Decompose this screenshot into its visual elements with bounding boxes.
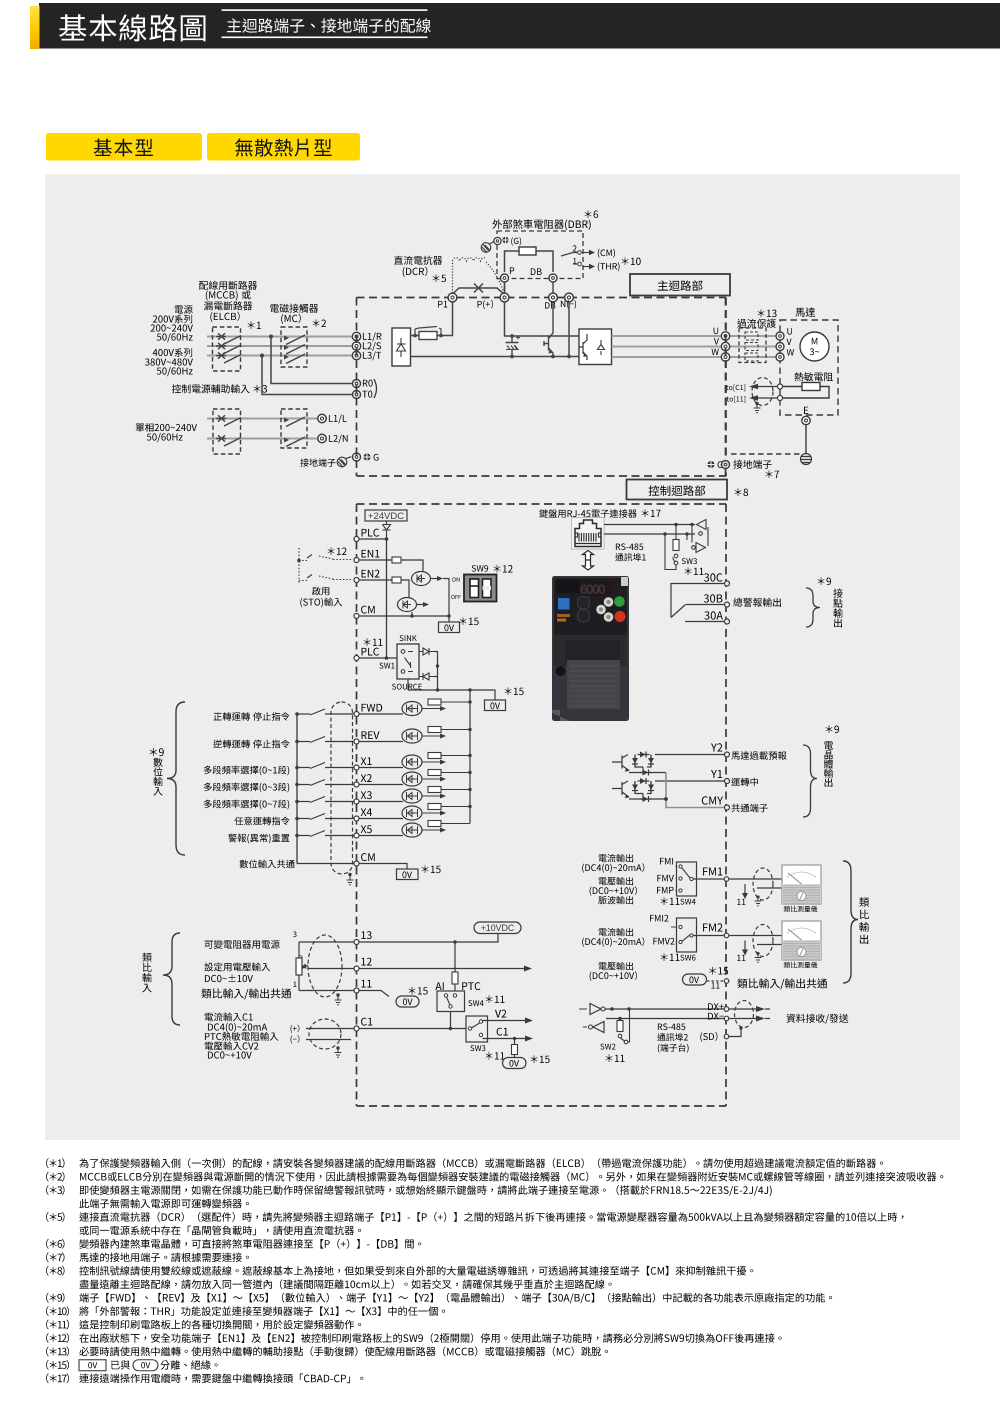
- terminal L1/R: [352, 332, 360, 340]
- button 無散熱片型: [207, 133, 360, 161]
- meter FM2: [782, 921, 821, 960]
- footnote line （＊12）: [46, 1333, 69, 1343]
- optocoupler: [402, 806, 422, 820]
- terminal 11: [354, 988, 359, 993]
- breaker pole: [216, 336, 226, 338]
- DBR thermal contact CM/THR: [561, 253, 578, 265]
- DC bus P(+) drop / cap / rails: [505, 302, 580, 336]
- PE symbol: [363, 453, 370, 460]
- SW3 terminator: [675, 525, 677, 540]
- label box: control circuit section: [627, 480, 728, 500]
- STO dotted wiring: [298, 548, 300, 583]
- footnote line cont: [80, 1226, 362, 1236]
- wire 11 to 0V oval: [359, 991, 389, 997]
- 0V box (CM): [397, 869, 419, 880]
- shield DX: [735, 1001, 754, 1028]
- terminal V motor side: [776, 343, 784, 351]
- label: MC: [270, 304, 318, 313]
- wire PLC to SW1: [359, 657, 397, 659]
- wire L3 phase input: [207, 355, 353, 357]
- terminal W motor side: [776, 353, 784, 361]
- footnote line （＊1）: [46, 1158, 64, 1168]
- label: single-phase source: [136, 423, 197, 432]
- breaker pole: [216, 438, 226, 440]
- RS485 driver triangles: [697, 520, 707, 530]
- wire R0 tap: [269, 335, 273, 339]
- FM2 wire/terminal: [703, 923, 722, 931]
- 0V box (EN): [439, 622, 460, 633]
- breaker MCCB dashed box: [213, 327, 241, 371]
- wire PLC to +24V: [359, 538, 387, 540]
- rectifier bridge: [392, 328, 411, 366]
- SW4 pin leads: [676, 867, 680, 891]
- terminal P (DBR): [501, 274, 509, 282]
- optocoupler CM row: [398, 598, 417, 612]
- digital input FWD: [213, 712, 289, 721]
- svg-text:6000: 6000: [580, 582, 605, 597]
- contactor MC dashed box: [281, 327, 307, 367]
- shield FM1: [753, 868, 773, 900]
- optocoupler: [402, 772, 422, 786]
- label: MCCB/ELCB: [199, 281, 257, 290]
- shield ellipse thermistor: [752, 378, 773, 406]
- RS485 label port1: [616, 543, 643, 550]
- thermal OC element: [745, 353, 758, 361]
- EN1 wire + resistor: [359, 559, 392, 561]
- svg-text:+10VDC: +10VDC: [481, 923, 515, 933]
- DBR dashed box: [497, 231, 583, 279]
- SW1 diodes: [419, 648, 434, 655]
- motor M 3~: [800, 332, 829, 361]
- common CMY: [666, 773, 725, 808]
- wires EN optos to 0V: [359, 579, 449, 623]
- optocoupler: [402, 755, 422, 769]
- DCR dotted reactor: [452, 261, 454, 293]
- terminal G: [353, 453, 361, 461]
- SW9 DIP switch: [472, 565, 488, 571]
- footnote line （＊5）: [46, 1212, 64, 1222]
- wire motor output: [612, 346, 722, 348]
- contactor pole: [284, 438, 289, 443]
- potentiometer: [293, 931, 297, 937]
- label: power source 200V: [175, 305, 193, 314]
- label: control power aux input: [172, 384, 250, 393]
- N(-) drop: [568, 302, 570, 357]
- wire 13 inside to +10VDC: [359, 934, 498, 943]
- SD terminal: [700, 1032, 717, 1042]
- digital input X1: [204, 766, 290, 776]
- wire T0 tap: [260, 354, 264, 358]
- SW4 box: [677, 862, 697, 896]
- footnote line （＊3）: [46, 1185, 64, 1195]
- schematic gray panel: [45, 174, 960, 1140]
- jumper bar P1-P(+) with X: [453, 288, 505, 294]
- FM2 labels: [650, 915, 668, 922]
- 0V box (SW1): [485, 700, 506, 711]
- V2 output: [495, 1010, 506, 1018]
- contactor pole: [284, 345, 289, 350]
- wire SW4 to C1 line: [450, 1012, 452, 1029]
- terminal P(+): [500, 293, 509, 302]
- overcurrent protection dashed box: [758, 309, 777, 317]
- left common bus digital inputs: [296, 714, 298, 864]
- terminal 13: [354, 940, 359, 945]
- breaker pole: [216, 418, 226, 420]
- shield ellipse pot: [308, 935, 342, 997]
- terminal L1/L: [318, 414, 326, 422]
- STO label: [312, 587, 329, 596]
- terminal C1: [354, 1026, 359, 1031]
- RS485 port1 wires: [604, 525, 695, 535]
- SW1 sink/source switch: [400, 635, 417, 641]
- footnote line cont: [80, 1279, 612, 1289]
- footnote line （＊15）: [46, 1360, 69, 1370]
- charging resistor + bypass: [411, 335, 420, 337]
- terminal DB (DBR): [549, 274, 557, 282]
- brace transistor output: [826, 725, 839, 733]
- terminal EN1: [354, 558, 359, 563]
- C1 shield + +/-: [291, 1025, 300, 1033]
- optocoupler: [402, 789, 422, 803]
- footnote line （＊13）: [46, 1347, 69, 1357]
- control circuit dashed boundary: [357, 504, 727, 1106]
- breaker pole: [216, 345, 226, 347]
- smoothing capacitor: [510, 334, 514, 338]
- motor dashed box: [795, 307, 815, 316]
- terminal CM: [354, 614, 359, 619]
- footnote line （＊8）: [46, 1266, 64, 1276]
- +10VDC pill: [474, 922, 521, 934]
- terminal E: [804, 407, 808, 414]
- inverter G terminal: [707, 461, 714, 468]
- digital input REV: [213, 740, 289, 749]
- DX terminals: [724, 1007, 729, 1012]
- footnote line （＊17）: [46, 1373, 69, 1383]
- footnote line （＊7）: [46, 1252, 64, 1262]
- labels analog input: [205, 940, 280, 949]
- shield FM2: [753, 925, 773, 957]
- wire L1 phase input: [207, 336, 353, 338]
- EN2 wire + resistor: [359, 579, 392, 581]
- vertical +24V rail: [386, 539, 388, 658]
- brace analog inputs: [163, 933, 180, 1025]
- wire L2 phase input: [207, 345, 353, 347]
- svg-text:+24VDC: +24VDC: [368, 511, 404, 522]
- thermal OC element: [745, 332, 758, 340]
- optocoupler: [402, 702, 422, 716]
- button 基本型: [46, 133, 202, 161]
- dashed boundary right vertical: [725, 298, 727, 480]
- brace analog output: [843, 861, 858, 983]
- terminal PLC (sink/source): [354, 656, 359, 661]
- terminal N(−): [565, 293, 574, 302]
- FM1 labels: [599, 854, 633, 862]
- bracket after R0/T0: [374, 379, 377, 398]
- AI/PTC switch SW4b: [435, 982, 443, 990]
- braking IGBT: [544, 302, 553, 357]
- 0V oval (11): [396, 996, 419, 1007]
- header yellow accent: [30, 6, 40, 49]
- wire C1 to SW3b: [359, 1028, 466, 1030]
- C1 output: [497, 1028, 508, 1036]
- dashed link G to earth: [731, 453, 800, 455]
- terminal V inverter side: [721, 342, 729, 350]
- relay output 30A/B/C: [725, 581, 730, 586]
- wire single-phase: [207, 418, 318, 420]
- digital input X5: [228, 834, 289, 844]
- DCR label: [394, 256, 442, 265]
- label: ground terminal: [300, 458, 335, 466]
- footnote line （＊10）: [46, 1306, 69, 1316]
- wire E to earth: [805, 425, 807, 453]
- DBR ground symbol: [481, 242, 494, 253]
- header subtitle rules: [222, 9, 428, 11]
- brace digital inputs: [167, 702, 185, 855]
- output Y2: [612, 755, 666, 773]
- output Y1: [612, 781, 666, 799]
- header black bar: [39, 3, 1000, 49]
- earth symbol below motor: [801, 454, 812, 465]
- FM1 wire/terminal: [703, 867, 722, 875]
- SW3 analog switch box: [466, 1016, 488, 1042]
- meter FM1: [782, 865, 821, 904]
- terminal PLC: [354, 537, 359, 542]
- optocoupler: [402, 729, 422, 743]
- digital input X4: [234, 817, 289, 826]
- breaker pole: [216, 355, 226, 357]
- terminal EN2: [354, 578, 359, 583]
- shield tube digital inputs: [331, 702, 353, 874]
- footnote line （＊9）: [46, 1293, 64, 1303]
- resistor from 13 junction down: [454, 942, 456, 972]
- RJ45 jack: [572, 518, 605, 550]
- wire single-phase: [207, 438, 318, 440]
- SW1 output wiring to 0V: [408, 652, 495, 701]
- thermal OC element: [745, 343, 758, 351]
- diode below 24V: [383, 521, 391, 539]
- +24VDC box: [365, 510, 407, 521]
- terminal U inverter side: [721, 332, 729, 340]
- digital input X3: [204, 800, 290, 810]
- brace contact output: [818, 577, 831, 585]
- terminal 12: [354, 966, 359, 971]
- terminal T0: [353, 391, 361, 399]
- contactor pole: [284, 418, 289, 423]
- thermistor leads to C1/11: [752, 387, 778, 399]
- analog common 0V: [683, 974, 707, 985]
- optocoupler EN: [412, 572, 431, 586]
- RS485 port2 drivers: [590, 1004, 601, 1015]
- inverter IGBT module: [579, 329, 612, 365]
- SW6 box: [677, 918, 697, 952]
- footnote line （＊6）: [46, 1239, 64, 1249]
- wires 13 12 11: [299, 941, 354, 943]
- terminal U motor side: [776, 332, 784, 340]
- terminal DB: [549, 293, 558, 302]
- resistor + 0V oval below C1 out: [514, 1039, 516, 1045]
- ground symbol: [337, 457, 351, 467]
- terminal R0: [353, 380, 361, 388]
- terminal L3/T: [352, 351, 360, 359]
- DBR terminal G: [494, 237, 501, 244]
- wire motor output: [612, 335, 722, 337]
- terminal L2/N: [318, 434, 326, 442]
- collector bus to 0V: [469, 690, 471, 824]
- contactor pole: [284, 355, 289, 360]
- footnote line （＊11）: [46, 1320, 69, 1330]
- wire motor output: [612, 356, 722, 358]
- terminal W inverter side: [721, 353, 729, 361]
- RJ45 connector label: [539, 509, 636, 518]
- SW6 pin leads: [671, 927, 679, 942]
- wire 12 arrow inside: [359, 968, 524, 970]
- label: power source 400V: [153, 348, 192, 357]
- SW2 terminator: [619, 1019, 621, 1021]
- digital common CM: [240, 860, 295, 869]
- terminal P1: [448, 293, 457, 302]
- terminal L2/S: [352, 342, 360, 350]
- footnote line cont: [79, 1199, 249, 1209]
- keypad arrow updown: [583, 551, 594, 571]
- product photo (inverter): [552, 576, 629, 721]
- label box: main circuit section: [630, 274, 730, 296]
- DX wires: [605, 1009, 724, 1019]
- DBR label: [492, 219, 590, 230]
- optocoupler: [402, 823, 422, 837]
- thermistor: [794, 372, 832, 381]
- main circuit dashed boundary: [357, 298, 727, 477]
- contactor single-phase dashed box: [281, 409, 307, 448]
- footnote line （＊2）: [46, 1172, 64, 1182]
- DBR resistor: [505, 251, 554, 294]
- breaker single-phase dashed box: [213, 409, 241, 454]
- digital input X2: [204, 783, 290, 793]
- contactor pole: [284, 336, 289, 341]
